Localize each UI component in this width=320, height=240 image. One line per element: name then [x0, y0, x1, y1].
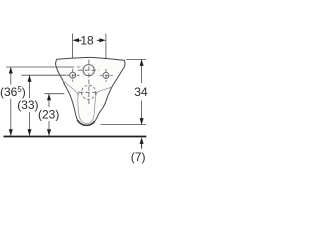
dim 36.5: top arrow	[9, 67, 13, 74]
svg-text:34: 34	[134, 85, 148, 99]
svg-text:(23): (23)	[38, 107, 59, 121]
drain hole dashed circle	[82, 85, 96, 99]
dim 7: arrow below floor	[140, 137, 144, 144]
svg-text:(7): (7)	[131, 150, 146, 164]
svg-text:(33): (33)	[17, 98, 38, 112]
dim 23: vertical line	[48, 94, 50, 107]
dim 33: bottom arrow	[28, 129, 32, 136]
dim 34: bottom arrow	[140, 118, 144, 125]
dim 23: bottom arrow	[47, 129, 51, 136]
svg-text:(365): (365)	[0, 85, 26, 99]
inner channel U	[78, 92, 97, 124]
left fixing hole	[70, 72, 76, 78]
dim 33: top arrow	[28, 75, 32, 82]
floor line	[4, 136, 147, 138]
dim 33: vertical line	[29, 75, 31, 98]
right fixing hole	[103, 72, 109, 78]
center vertical dashed line	[88, 60, 90, 105]
rim inner right diagonal	[97, 86, 113, 92]
dim 33: top reference line	[21, 74, 66, 76]
svg-text:18: 18	[80, 33, 94, 47]
dim 34: top extension line	[126, 58, 146, 60]
dimension 18: left extension line	[72, 34, 74, 70]
rim inner left diagonal	[63, 81, 79, 96]
dim 34: bottom extension line	[101, 124, 147, 126]
dim 36.5: bottom arrow	[9, 129, 13, 136]
dimension 18: right extension line	[105, 34, 107, 68]
dim 36.5: vertical line	[10, 67, 12, 85]
supply hole circle	[83, 65, 94, 76]
dim 23: top reference line	[44, 93, 64, 95]
dim 34: vertical line	[141, 59, 143, 83]
bowl bottom thick arc	[78, 121, 95, 126]
dim 34: top arrow	[140, 59, 144, 66]
dimension 18: left arrow	[73, 38, 80, 42]
dim 36.5: top reference line	[6, 66, 74, 68]
dim 23: top arrow	[47, 94, 51, 101]
dimension 18: right arrow	[99, 38, 106, 42]
WC body outer silhouette	[56, 57, 125, 125]
